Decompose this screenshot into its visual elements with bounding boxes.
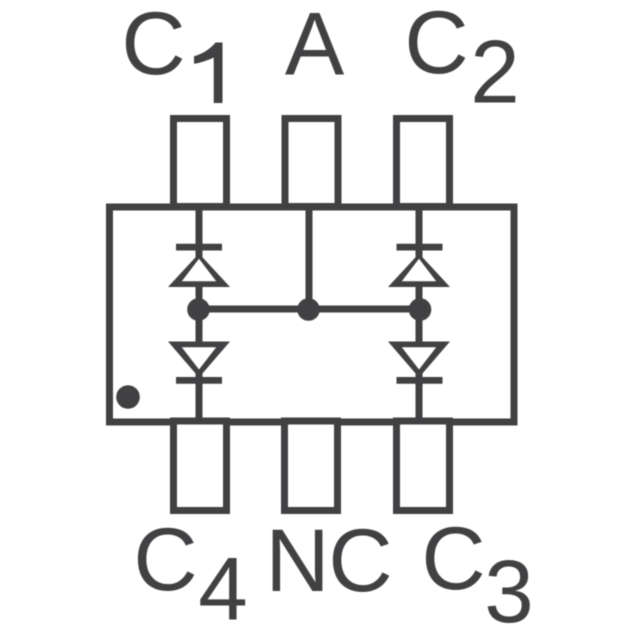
- svg-text:N: N: [265, 510, 329, 610]
- pin pad C3 (bottom right): [397, 421, 450, 511]
- node junction dot right: [409, 298, 432, 321]
- label C2: [404, 0, 519, 122]
- svg-text:C: C: [404, 0, 468, 92]
- svg-text:C: C: [121, 0, 185, 93]
- pin 1 index marker dot: [116, 385, 140, 409]
- svg-text:4: 4: [198, 539, 248, 639]
- wire left branch C1 to C4: [196, 205, 203, 422]
- label C4: [133, 509, 247, 639]
- svg-text:3: 3: [484, 541, 534, 640]
- pin pad C2 (top right): [397, 119, 450, 207]
- diode D4 (bottom right, cathode down): [388, 342, 450, 384]
- diode D3 (bottom left, cathode down): [168, 342, 230, 384]
- svg-text:C: C: [133, 509, 197, 609]
- node junction dot left: [187, 298, 210, 321]
- node A junction dot middle: [297, 298, 320, 321]
- wire right branch C2 to C3: [416, 205, 423, 422]
- wire anode branch A: [306, 205, 313, 309]
- pin 1 pad C1 (top left): [174, 119, 227, 207]
- label C3: [421, 508, 533, 640]
- pin pad C4 (bottom left): [174, 421, 227, 511]
- svg-text:C: C: [328, 510, 392, 610]
- package body outline: [110, 207, 515, 422]
- svg-text:C: C: [421, 508, 485, 608]
- pin pad A (top middle): [285, 119, 338, 207]
- label C1: [121, 0, 222, 103]
- wire common anode bus: [199, 306, 419, 313]
- diode D1 (top left, cathode up): [168, 244, 230, 287]
- diode D2 (top right, cathode up): [388, 244, 450, 287]
- svg-text:2: 2: [470, 22, 520, 122]
- svg-text:A: A: [285, 0, 345, 94]
- label NC: [265, 510, 392, 610]
- pin pad NC (bottom middle): [285, 421, 338, 511]
